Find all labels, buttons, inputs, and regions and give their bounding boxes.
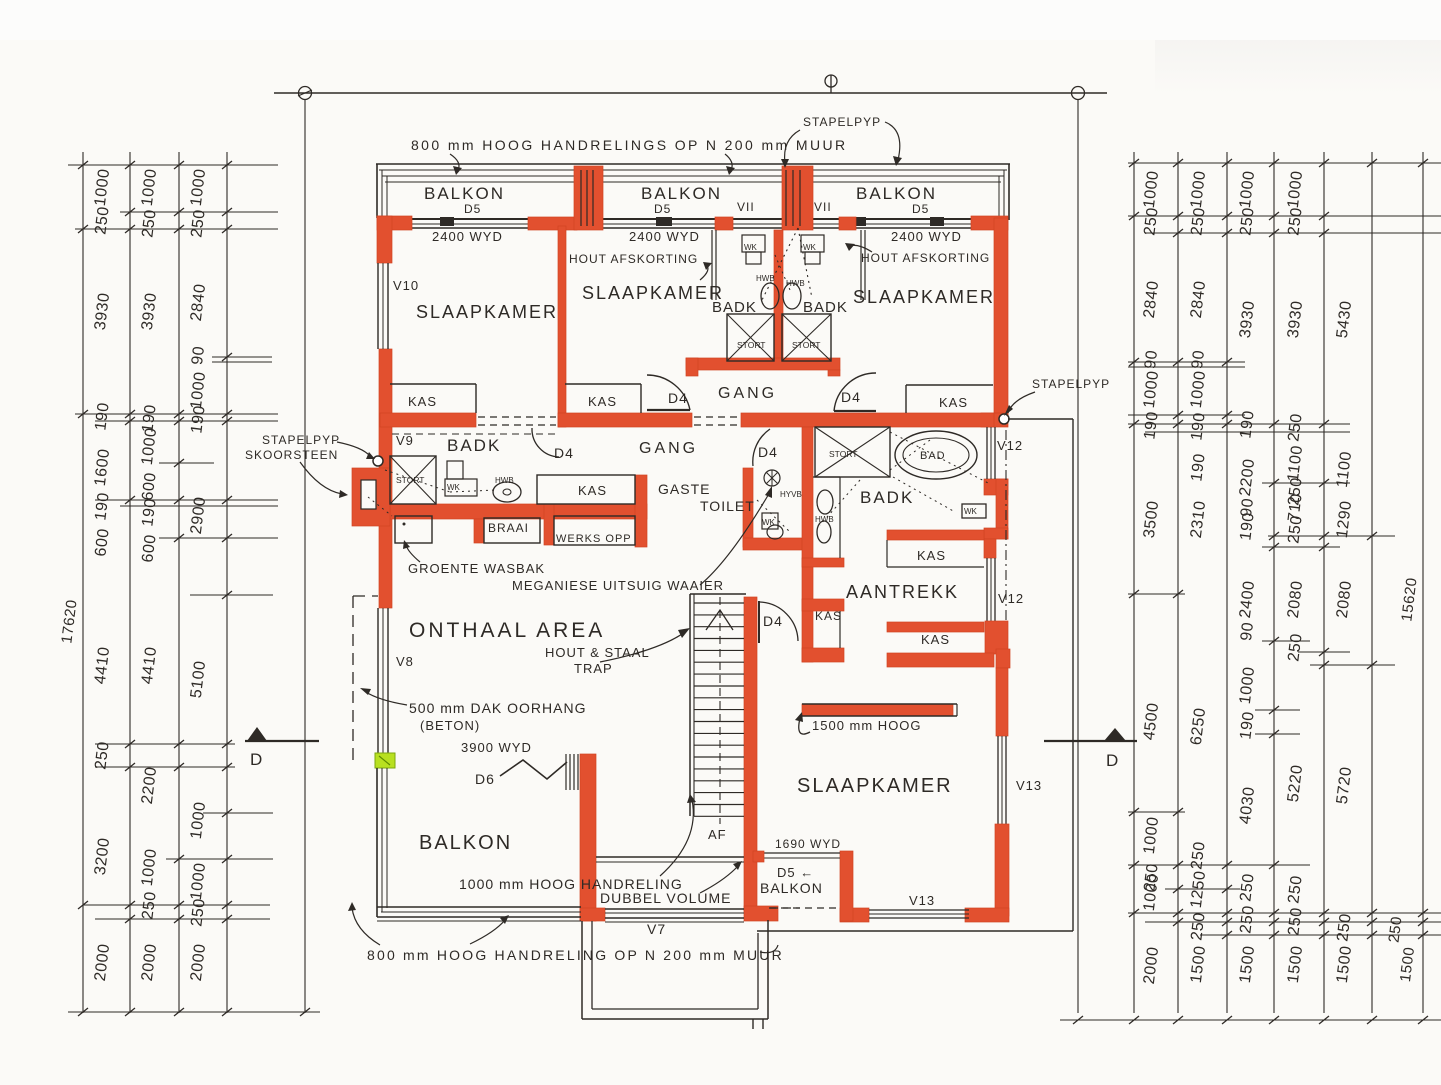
wall corridor band C red: [741, 413, 994, 427]
left dim tick row y229: [75, 228, 278, 230]
left dim vertical line 4: [226, 152, 228, 1013]
left dim vertical line 1: [82, 152, 84, 1013]
svg-text:250: 250: [1285, 632, 1305, 662]
right dim vertical line 5: [1323, 152, 1325, 1013]
lower outer boundary: [757, 930, 1073, 932]
left dim tick row y919: [95, 918, 270, 920]
right dim tick row y922: [1145, 921, 1441, 923]
stort box badk-left: [390, 456, 436, 504]
grid vertical line right x1078: [1077, 99, 1079, 1013]
dak oorhang dashed overhang: [352, 596, 354, 763]
plumbing dotted badk-left: [385, 470, 450, 492]
svg-text:V13: V13: [1016, 778, 1042, 793]
dubbel volume arrow 2: [700, 866, 738, 893]
wk fixture badk-left: [447, 461, 463, 479]
svg-text:V7: V7: [647, 921, 666, 937]
svg-text:2400 WYD: 2400 WYD: [432, 229, 503, 244]
svg-text:WK: WK: [447, 483, 461, 492]
groente arrow: [406, 545, 420, 562]
svg-text:250: 250: [1188, 206, 1208, 236]
wall werksopp east red: [635, 475, 647, 547]
corridor dashed below band A: [392, 433, 556, 435]
wall VII post left red: [715, 217, 733, 230]
V7 swoosh: [760, 945, 778, 953]
svg-text:250: 250: [92, 740, 112, 770]
svg-text:190: 190: [188, 404, 208, 434]
svg-text:STORT: STORT: [792, 340, 821, 350]
right dim tick row y665: [1310, 664, 1395, 666]
grid vertical line left x305: [304, 99, 306, 1013]
right dim tick row y415: [1128, 414, 1245, 416]
gaste toilet door arc: [753, 429, 770, 466]
hout staal trap arrow: [600, 632, 685, 662]
svg-text:HWB: HWB: [495, 476, 514, 485]
skoorsteen arrow: [300, 462, 342, 494]
werksopp box: [554, 516, 635, 545]
svg-text:250: 250: [1334, 912, 1354, 942]
svg-text:HWB: HWB: [786, 279, 805, 288]
wall right side red seg2: [984, 539, 996, 558]
left dim tick row y813: [203, 812, 273, 814]
right dim tick row y432: [1145, 431, 1350, 433]
wk ensuite box: [962, 504, 986, 518]
wall right red seg4: [996, 668, 1008, 736]
window end post bedroom1 right: [440, 217, 454, 226]
small balcony dashed bottom: [769, 907, 836, 909]
left dim tick row y859: [166, 858, 273, 860]
window end post bedroom2: [656, 217, 672, 226]
svg-text:STAPELPYP: STAPELPYP: [803, 115, 881, 129]
meganiese arrow: [700, 492, 770, 585]
svg-text:KAS: KAS: [588, 394, 617, 409]
svg-text:D6: D6: [475, 771, 495, 787]
svg-text:WK: WK: [744, 243, 758, 252]
right dim tick row y812: [1128, 811, 1185, 813]
hout afskorting left arrow: [700, 264, 708, 280]
half-wall outline: [802, 703, 957, 705]
svg-text:90: 90: [1189, 349, 1208, 370]
svg-text:VII: VII: [814, 200, 832, 214]
right dim vertical line 6: [1371, 152, 1373, 1013]
window end post near VII right: [856, 217, 866, 226]
left dim tick row y500: [95, 499, 278, 501]
right dim bottom row y1020: [1060, 1019, 1441, 1021]
section marker D right: [1104, 728, 1126, 741]
svg-text:250: 250: [1285, 206, 1305, 236]
datum line top: [274, 92, 1107, 94]
wall small balcony east red: [840, 851, 853, 921]
svg-text:250: 250: [92, 205, 112, 235]
svg-text:D4: D4: [668, 390, 688, 406]
svg-text:V9: V9: [396, 433, 414, 448]
svg-text:KAS: KAS: [917, 548, 946, 563]
svg-text:500 mm DAK OORHANG: 500 mm DAK OORHANG: [409, 700, 586, 716]
staircase dashed center line: [719, 597, 721, 824]
wk fixture upper-left: [742, 235, 765, 252]
svg-text:800 mm HOOG HANDRELINGS OP N: 800 mm HOOG HANDRELINGS OP N 200 mm MUUR: [411, 137, 847, 153]
800mm bottom arrow 2: [470, 920, 505, 944]
svg-text:MEGANIESE UITSUIG WAAIER: MEGANIESE UITSUIG WAAIER: [512, 578, 724, 593]
wall VII post right red: [839, 217, 856, 230]
svg-text:1500 mm HOOG: 1500 mm HOOG: [812, 718, 922, 733]
V7 window lines bottom: [605, 908, 744, 910]
right dim tick row y362 double: [1128, 361, 1245, 363]
svg-text:250: 250: [1188, 911, 1208, 941]
right dim tick row y594: [1128, 593, 1185, 595]
window V12b right wall lines: [986, 558, 988, 621]
svg-text:GANG: GANG: [639, 440, 698, 457]
left dim tick row y414: [75, 413, 278, 415]
wall right red seg3: [985, 621, 1008, 654]
door D4 badk arc: [532, 428, 559, 457]
svg-text:250: 250: [139, 890, 159, 920]
right dim vertical line 4: [1273, 152, 1275, 1013]
window end post bedroom3 left: [930, 217, 944, 226]
window V12a right wall lines: [986, 427, 988, 479]
wall center double-volume red: [580, 754, 596, 921]
grid circle right: [1072, 87, 1085, 100]
wall kas2 band red: [887, 622, 984, 632]
svg-text:D5: D5: [654, 202, 671, 216]
svg-text:V12: V12: [998, 591, 1024, 606]
right dim tick row y935: [1200, 934, 1441, 936]
svg-text:600: 600: [139, 533, 159, 563]
gaste toilet wk: [762, 513, 778, 529]
svg-text:250: 250: [1237, 904, 1257, 934]
balcony top rail lines: [376, 163, 1010, 165]
wall kas1 band red right side: [887, 530, 984, 540]
svg-text:D4: D4: [554, 445, 574, 461]
svg-text:BADK: BADK: [712, 299, 757, 316]
right dim tick row y216: [1128, 215, 1441, 217]
wall bedroom bottom-right corner red: [965, 908, 1009, 922]
staircase treads: [694, 602, 744, 604]
left dim tick row y595: [190, 594, 273, 596]
svg-text:STORT: STORT: [829, 449, 858, 459]
svg-text:250: 250: [188, 208, 208, 238]
svg-text:(BETON): (BETON): [420, 718, 480, 733]
svg-text:SKOORSTEEN: SKOORSTEEN: [245, 448, 338, 462]
small balcony top lines: [757, 852, 840, 854]
wall right side niche red: [996, 479, 1008, 539]
svg-text:BALKON: BALKON: [856, 184, 937, 203]
wall chimney left column red: [528, 217, 577, 230]
hwb niche lines ensuite: [839, 477, 841, 558]
800mm top arrow 2: [725, 154, 732, 170]
right dim tick row y710: [1255, 709, 1300, 711]
svg-text:V12: V12: [997, 438, 1023, 453]
chimney center inner lines: [785, 170, 787, 226]
plumbing dotted ensuite: [890, 432, 990, 484]
svg-text:V10: V10: [393, 278, 419, 293]
svg-text:BAD: BAD: [920, 450, 946, 462]
svg-text:190: 190: [92, 401, 112, 431]
svg-text:STORT: STORT: [396, 475, 425, 485]
wall right exterior red upper: [994, 218, 1008, 416]
right dim tick row y163: [1128, 162, 1441, 164]
wall basin-kas mid band red: [802, 558, 844, 567]
balcony bottom rail lines: [377, 906, 581, 908]
svg-text:250: 250: [1237, 206, 1257, 236]
left wall stapelpyp circle: [373, 456, 383, 466]
wall bath south band red: [686, 358, 840, 370]
wall braai stub 1 red: [474, 519, 484, 543]
grid circle left: [299, 87, 312, 100]
svg-text:D5: D5: [912, 202, 929, 216]
svg-text:KAS: KAS: [408, 394, 437, 409]
stapelpyp top arrow right: [885, 122, 900, 160]
left dim tick row y165: [68, 164, 278, 166]
svg-text:250: 250: [1141, 206, 1161, 236]
stort box ensuite: [815, 427, 890, 477]
bad bath oval: [895, 431, 977, 479]
right dim tick row y652: [1298, 651, 1350, 653]
svg-text:250: 250: [1285, 514, 1305, 544]
svg-text:600: 600: [92, 527, 112, 557]
small balcony red nub: [753, 851, 764, 862]
svg-text:AF: AF: [708, 827, 727, 842]
svg-text:BALKON: BALKON: [419, 832, 512, 854]
window V13b bottom lines: [869, 909, 969, 911]
svg-text:KAS: KAS: [921, 632, 950, 647]
svg-text:190: 190: [1188, 452, 1208, 482]
wk fixture upper-right: [801, 235, 824, 252]
svg-text:GASTE: GASTE: [658, 481, 710, 497]
left dim tick row y506: [120, 505, 278, 507]
door D4 bedroom3 arc: [834, 373, 876, 411]
left dim tick row y212: [120, 211, 278, 213]
hwb ovals upper: [761, 283, 779, 309]
balcony bottom wall window lines top row: [392, 218, 994, 220]
plumbing dotted upper bath: [762, 228, 798, 300]
green highlight block V8 sill: [375, 753, 395, 768]
svg-text:HWB: HWB: [815, 515, 834, 524]
svg-text:STAPELPYP: STAPELPYP: [1032, 377, 1110, 391]
svg-text:AANTREKK: AANTREKK: [846, 582, 959, 602]
left dim vertical line 3: [178, 152, 180, 1013]
svg-text:2400 WYD: 2400 WYD: [891, 229, 962, 244]
svg-text:DUBBEL VOLUME: DUBBEL VOLUME: [600, 890, 732, 906]
staircase outline: [689, 594, 691, 816]
left dim vertical line 2: [129, 152, 131, 1013]
wall corridor dashed opening 1: [478, 416, 556, 418]
braai box: [484, 518, 540, 543]
left dim tick row y357 double: [212, 356, 272, 358]
svg-text:ONTHAAL AREA: ONTHAAL AREA: [409, 619, 605, 642]
hout afskorting partition right: [860, 230, 862, 300]
wall right side notch lower red: [984, 528, 1008, 539]
left dim tick row y421: [95, 420, 278, 422]
svg-text:90: 90: [1238, 621, 1257, 642]
left dim tick row y463: [159, 462, 214, 464]
svg-text:D4: D4: [841, 389, 861, 405]
wall corridor dashed opening 2: [694, 416, 739, 418]
stapelpyp circle right: [999, 414, 1009, 424]
chimney exterior left red: [352, 468, 390, 526]
svg-text:BADK: BADK: [447, 436, 501, 455]
right dim tick row y536: [1268, 535, 1395, 537]
svg-text:1690 WYD: 1690 WYD: [775, 837, 841, 851]
V12 dash-dot line: [1005, 430, 1007, 650]
right dim tick row y865: [1128, 864, 1310, 866]
kas1 box lines: [886, 540, 888, 567]
svg-text:190: 190: [1237, 511, 1257, 541]
800mm top arrow: [450, 154, 459, 170]
stort box upper-left: [727, 314, 774, 361]
chimney exterior left inner white: [361, 480, 376, 509]
stapelpyp left arrow: [337, 442, 370, 456]
svg-text:STAPELPYP: STAPELPYP: [262, 433, 340, 447]
right dim tick row y889: [1165, 888, 1240, 890]
door D4 stair-top arc: [760, 602, 798, 641]
800mm bottom arrow: [352, 908, 380, 945]
balcony top rail right verticals: [1008, 164, 1010, 220]
svg-text:250: 250: [1385, 915, 1405, 943]
wall corridor band B red: [558, 413, 692, 427]
wall toilet south red: [743, 538, 803, 550]
wall half-wall 1500mm red: [802, 704, 953, 716]
wall left exterior red mid: [379, 349, 392, 608]
svg-text:90: 90: [1142, 349, 1161, 370]
gaste toilet fan: [764, 470, 780, 486]
wall right red seg5: [995, 824, 1009, 916]
svg-text:90: 90: [189, 345, 208, 366]
svg-text:STORT: STORT: [737, 340, 766, 350]
hwb circle badk-left: [493, 482, 521, 502]
svg-text:WK: WK: [762, 518, 776, 527]
entrance gate ticks: [752, 1019, 754, 1029]
wall right side notch upper red: [984, 479, 1008, 495]
wall braai stub 2 red: [544, 504, 554, 545]
svg-text:BADK: BADK: [860, 488, 914, 507]
svg-text:HOUT AFSKORTING: HOUT AFSKORTING: [861, 251, 990, 265]
svg-text:250: 250: [188, 897, 208, 927]
svg-text:HOUT & STAAL: HOUT & STAAL: [545, 645, 650, 660]
balcony left edge lines lower: [376, 768, 378, 917]
svg-text:GROENTE WASBAK: GROENTE WASBAK: [408, 561, 545, 576]
svg-text:KAS: KAS: [815, 609, 842, 623]
kas box bedroom2: [384, 640, 565, 642]
chimney left inner lines: [580, 170, 582, 226]
right dim tick row y913: [1128, 912, 1441, 914]
svg-text:BADK: BADK: [803, 299, 848, 316]
window V13a right wall lines: [997, 736, 999, 824]
wall bedroom bottom corner left red: [840, 908, 869, 922]
right dim vertical line 7: [1422, 152, 1424, 1013]
boundary dashes right of V7: [770, 907, 800, 909]
wall bath south band left nub: [686, 358, 698, 376]
wall top-left corner red: [377, 216, 412, 230]
svg-text:250: 250: [1285, 874, 1305, 904]
groente wasbak box: [395, 516, 432, 543]
svg-text:KAS: KAS: [939, 395, 968, 410]
svg-text:WK: WK: [803, 243, 817, 252]
svg-text:600: 600: [139, 471, 159, 501]
right dim vertical line 3: [1226, 152, 1228, 1013]
svg-text:TOILET: TOILET: [700, 498, 755, 514]
svg-text:BALKON: BALKON: [641, 184, 722, 203]
svg-text:250: 250: [1237, 872, 1257, 902]
svg-text:SLAAPKAMER: SLAAPKAMER: [853, 287, 995, 307]
kas box bedroom1: [390, 383, 476, 385]
wall right corner foot red: [981, 413, 1008, 427]
svg-text:SLAAPKAMER: SLAAPKAMER: [582, 283, 724, 303]
wall bedroom divider 1-2 red: [558, 226, 566, 427]
svg-text:D5 ←: D5 ←: [777, 865, 814, 880]
svg-text:190: 190: [1188, 411, 1208, 441]
kas niche line ensuite: [839, 611, 841, 648]
svg-text:BALKON: BALKON: [424, 184, 505, 203]
wall toilet west red: [743, 468, 753, 547]
stapelpyp top arrow left: [785, 130, 800, 163]
svg-text:190: 190: [1141, 410, 1161, 440]
svg-text:190: 190: [1237, 710, 1257, 740]
section marker D left: [247, 727, 267, 741]
wall center foot red: [580, 908, 605, 921]
wall kas top band red: [802, 599, 844, 611]
grid lollipop middle: [830, 75, 832, 93]
wall kas bottom band red: [802, 648, 844, 662]
left dim tick row y905: [83, 904, 270, 906]
right dim vertical line 1: [1133, 152, 1135, 1013]
staircase up arrow: [706, 610, 733, 630]
svg-text:190: 190: [139, 497, 159, 527]
svg-text:HOUT AFSKORTING: HOUT AFSKORTING: [569, 252, 698, 266]
right dim tick row y483: [1262, 482, 1350, 484]
right dim tick row y734: [1255, 733, 1300, 735]
wall basin-kas divider red vertical: [802, 427, 813, 662]
wall lower-left band red: [390, 504, 647, 519]
svg-text:D5: D5: [464, 202, 481, 216]
svg-text:V13: V13: [909, 893, 935, 908]
kas box gaste: [537, 475, 635, 504]
door D6 jamb lines: [565, 754, 567, 790]
svg-text:WERKS OPP: WERKS OPP: [556, 533, 632, 545]
dubbel volume arrow 1: [660, 800, 693, 876]
left dim tick row y538: [159, 537, 278, 539]
entrance protrusion outer: [581, 921, 583, 1019]
svg-text:250: 250: [1188, 840, 1208, 870]
wall aantrekk south band red: [887, 653, 994, 667]
left dim tick row y767: [95, 766, 235, 768]
wall stair east red: [744, 597, 757, 911]
hwb ovals ensuite: [817, 490, 833, 514]
svg-text:VII: VII: [737, 200, 755, 214]
balcony top rail left verticals: [376, 164, 378, 218]
svg-text:V8: V8: [396, 654, 414, 669]
hout afskorting partition left: [711, 230, 713, 300]
svg-text:TRAP: TRAP: [574, 661, 613, 676]
wall bath south band right connector: [828, 370, 840, 376]
wall right jog red: [996, 649, 1010, 668]
right dim vertical line 2: [1177, 152, 1179, 1013]
svg-text:D4: D4: [763, 613, 783, 629]
right dim tick row y424: [1128, 423, 1350, 425]
svg-text:BALKON: BALKON: [760, 880, 823, 896]
svg-text:190: 190: [1237, 409, 1257, 439]
window V10 left wall lines: [377, 263, 379, 349]
svg-text:D4: D4: [758, 444, 778, 460]
chimney left top circle: [793, 171, 803, 181]
kas box bedroom3: [906, 384, 993, 386]
right dim tick row y547: [1262, 546, 1340, 548]
svg-text:D: D: [250, 750, 263, 769]
left dim bottom row y1012: [68, 1011, 320, 1013]
left dim tick row y744: [95, 743, 235, 745]
svg-text:SLAAPKAMER: SLAAPKAMER: [416, 302, 558, 322]
door D6 zigzag: [500, 760, 567, 779]
wall stair foot red: [744, 906, 778, 921]
